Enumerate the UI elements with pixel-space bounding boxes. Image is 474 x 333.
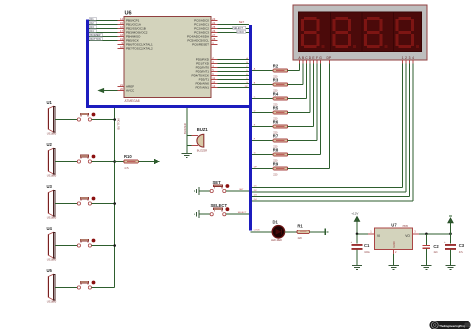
svg-text:C1: C1 [364,243,370,248]
ground below buzzer [182,153,192,157]
wire U7 GND pin to ground [393,254,395,265]
wire net E from PD4 to bus [218,74,250,76]
svg-text:10: 10 [120,45,123,49]
svg-text:D1: D1 [273,220,279,225]
U6 left pins PB0-PB7 with pin numbers [118,17,153,51]
svg-text:11: 11 [212,76,215,80]
svg-text:R1: R1 [297,223,303,228]
svg-text:US1880: US1880 [47,300,57,304]
bus right vertical segment [249,25,252,230]
svg-text:SELECT: SELECT [238,212,247,214]
wire ground to SELECT button [199,213,210,215]
resistor R5 [273,105,288,120]
svg-text:C3: C3 [459,243,465,248]
resistor R9 [273,161,288,176]
svg-text:18: 18 [120,33,123,37]
svg-text:DP: DP [254,167,258,169]
wire C1 to ground [356,250,358,266]
svg-text:1: 1 [402,56,404,60]
wire net D2 digit select from bus to display pin 2 [252,60,406,192]
power terminal arrow above C3 [448,216,454,234]
svg-text:R4: R4 [273,91,279,96]
wire net BUZZER from bus to PB4 [89,33,118,37]
wire net A from PD0 to bus [218,57,250,60]
ground below C1 [352,266,362,270]
wire ground to SET button [199,190,210,192]
svg-text:SELECT: SELECT [233,27,243,30]
display digit 1 segments [301,17,325,48]
transistor U5 hall sensor US1880 [47,268,57,303]
wire bus to resistor R9 [252,167,273,169]
wire C3 to ground [450,250,452,266]
wire U3 to push button 3 [55,203,77,205]
svg-text:U6: U6 [125,10,132,16]
wire resistor R9 to display segment DP [288,60,330,169]
svg-text:PC6/RESET: PC6/RESET [192,43,209,47]
svg-text:DP: DP [327,56,332,60]
svg-text:28: 28 [212,37,215,41]
wire resistor R3 to display segment B [288,60,303,85]
wire net DP from PD7 to bus [218,86,250,88]
svg-text:DP: DP [245,86,249,88]
capacitor C3 electrolytic [444,241,465,254]
wire bus to resistor R8 [252,153,273,155]
resistor R4 [273,91,288,106]
wire net BUTTON from bus to PB5 [89,37,118,41]
wire net D3 digit select from bus to display pin 3 [252,60,410,197]
push button switch 5 [77,281,95,290]
svg-text:C2: C2 [433,244,439,249]
bus horizontal segment [86,105,252,108]
svg-text:R9: R9 [273,161,279,166]
svg-text:100u: 100u [364,251,370,254]
svg-text:23: 23 [212,17,215,21]
wire R1 to power terminal [310,231,326,233]
ground below U7 [388,266,398,270]
wire net D1 digit select from bus to display pin 1 [252,60,403,188]
wire resistor R6 to display segment E [288,60,314,127]
wire push button 1 to BUTTON net [92,118,116,121]
svg-text:BUZ1: BUZ1 [197,127,209,132]
svg-text:SET: SET [213,180,222,185]
push button switch 3 [77,197,95,205]
display inner window [299,12,422,52]
wire bus to resistor R3 [252,83,273,85]
wire U1 to push button 1 [55,119,77,121]
svg-text:19: 19 [120,37,123,41]
buzzer BUZ1 [191,127,208,153]
wire push button 2 to BUTTON net [92,160,116,163]
svg-text:20: 20 [120,87,123,91]
wire net C from PD2 to bus [218,66,250,68]
svg-text:US1880: US1880 [47,174,57,178]
svg-text:U1: U1 [47,100,53,105]
svg-text:21: 21 [120,83,123,87]
wire net D4 from bus to PB3 [89,29,118,33]
wire U2 to push button 2 [55,161,77,163]
svg-text:17: 17 [120,29,123,33]
svg-text:220: 220 [298,237,303,240]
wire net LOCK from bus to LED D1 [251,230,273,232]
svg-text:12: 12 [212,80,215,84]
power terminal arrow on AVCC [98,88,104,92]
resistor R10 [124,154,139,170]
wire resistor R8 to display segment G [288,60,321,155]
wire net D2 from bus to PB1 [89,21,118,25]
wire U7 output node to C2 C3 [419,233,452,236]
svg-text:R6: R6 [273,119,279,124]
svg-text:27: 27 [212,33,215,37]
display digit 4 segments [396,17,420,48]
transistor U4 hall sensor US1880 [47,226,57,261]
ground below C2 [421,266,431,270]
push button SELECT [210,203,229,216]
wire resistor R5 to display segment D [288,60,310,113]
svg-text:G: G [246,82,248,84]
resistor R8 [273,147,288,162]
wire push button 3 to BUTTON net [92,202,116,205]
svg-text:US1880: US1880 [47,216,57,220]
wire net G from PD6 to bus [218,82,250,84]
svg-text:BUTTON: BUTTON [90,38,100,41]
svg-text:U4: U4 [47,226,53,231]
ground left of SET button [195,187,199,195]
U6 pin 20 AVCC [118,87,136,93]
svg-text:U3: U3 [47,184,53,189]
wire net SET from button to bus [226,189,249,191]
svg-text:4.7k: 4.7k [124,167,129,170]
ground left of SELECT button [195,210,199,218]
svg-text:BUZZER: BUZZER [197,148,208,152]
svg-text:7805: 7805 [402,225,408,228]
svg-text:2: 2 [405,56,407,60]
wire bus to resistor R5 [252,111,273,113]
svg-text:13: 13 [212,84,215,88]
capacitor C1 electrolytic [351,241,371,254]
wire net B from PD1 to bus [218,62,250,64]
svg-text:ATMEGA8: ATMEGA8 [125,99,140,103]
svg-text:G: G [254,153,256,155]
wire resistor R2 to display segment A [288,60,300,71]
svg-text:VO: VO [405,234,410,238]
power terminal bar right of R1 [325,229,328,236]
wire net SELECT from PC2 to bus [218,26,250,30]
resistor R1 [297,223,310,240]
svg-text:GND: GND [392,241,396,247]
svg-text:R7: R7 [273,133,279,138]
wire net SET from PC1 to bus [218,20,250,24]
bus left vertical segment [86,20,89,109]
wire U4 to push button 4 [55,245,77,247]
svg-text:R8: R8 [273,147,279,152]
svg-text:220: 220 [273,174,278,177]
wire U5 to push button 5 [55,287,77,289]
wire +12V to U7 input node [356,221,369,235]
svg-text:U2: U2 [47,142,53,147]
watermark logo [430,321,471,329]
svg-text:+12V: +12V [351,211,358,215]
svg-text:VI: VI [377,234,380,238]
transistor U1 hall sensor US1880 [47,100,57,135]
svg-text:R10: R10 [124,154,132,159]
svg-text:LOCK: LOCK [254,230,260,232]
svg-text:22n: 22n [434,251,439,254]
svg-text:SET: SET [239,189,244,191]
svg-text:R5: R5 [273,105,279,110]
svg-text:G: G [319,56,322,60]
transistor U2 hall sensor US1880 [47,142,57,177]
svg-text:26: 26 [212,29,215,33]
svg-text:4: 4 [412,56,414,60]
wire node to capacitor C1 [356,234,358,244]
wire BUTTON net to resistor R10 [115,161,124,163]
svg-text:U7: U7 [391,223,397,228]
wire net D from PD3 to bus [218,70,250,72]
svg-text:14: 14 [120,17,123,21]
power terminal arrow right of R10 [154,159,159,163]
svg-text:LED-RED: LED-RED [271,239,282,242]
wire bus to resistor R6 [252,125,273,127]
transistor U3 hall sensor US1880 [47,184,57,219]
wire net BUTTON vertical [115,108,121,288]
voltage regulator U7 7805 [368,223,419,255]
wire net F from PD5 to bus [218,78,250,80]
wire net D4 digit select from bus to display pin 4 [252,60,413,201]
display digit 3 segments [364,17,388,48]
push button switch 2 [77,155,95,163]
microcontroller U6 ATMEGA8 body [124,10,211,102]
svg-text:R2: R2 [273,63,279,68]
svg-text:BUZZER: BUZZER [90,34,100,37]
svg-text:SET: SET [239,20,245,24]
svg-text:U5: U5 [47,268,53,273]
svg-text:15: 15 [120,21,123,25]
resistor R6 [273,119,288,134]
wire bus to resistor R4 [252,97,273,99]
capacitor C2 [423,244,440,254]
svg-text:PB7/TOSC2/XTAL2: PB7/TOSC2/XTAL2 [126,47,153,51]
svg-text:AVCC: AVCC [126,89,135,93]
svg-text:16: 16 [120,25,123,29]
svg-text:BUZZER: BUZZER [183,123,187,134]
wire net SELECT from button to bus [226,212,249,214]
wire bus to resistor R7 [252,139,273,141]
wire node to capacitor C2 [425,234,427,246]
resistor R2 [273,63,288,78]
wire resistor R4 to display segment C [288,60,307,99]
wire net D3 from bus to PB2 [89,25,118,29]
svg-text:BUTTON: BUTTON [117,118,121,129]
svg-text:3: 3 [409,56,411,60]
svg-text:US1880: US1880 [47,258,57,262]
display digit 2 segments [333,17,357,48]
wire R10 to power terminal [138,161,153,163]
resistor R7 [273,133,288,148]
U6 right pins PD0-PD7 with pin numbers [192,56,218,90]
svg-text:24: 24 [212,21,215,25]
svg-text:47u: 47u [459,251,464,254]
U6 pin 21 AREF [118,83,135,89]
wire push button 5 to BUTTON net [92,287,115,289]
power terminal +12V [351,211,360,221]
wire node to capacitor C3 [450,234,452,244]
display segment labels ABCDEFG DP [298,56,331,60]
wire buzzer to ground [186,145,188,153]
push button switch 4 [77,239,95,247]
svg-text:F: F [316,56,318,60]
svg-text:25: 25 [212,25,215,29]
wire LED D1 to resistor R1 [285,231,297,233]
display digit labels 1234 [402,56,415,60]
wire net BUZZER from bus to buzzer [183,108,192,145]
wire resistor R7 to display segment F [288,60,317,141]
ground below C3 [445,266,455,270]
wire bus to resistor R2 [252,68,273,71]
svg-text:SELECT: SELECT [211,203,228,208]
wire push button 4 to BUTTON net [92,244,116,247]
7-segment display frame [293,5,427,60]
svg-text:LOCK: LOCK [237,31,244,34]
LED D1 [271,220,285,243]
wire AVCC to power terminal [104,90,118,92]
push button switch 1 [77,113,95,122]
svg-text:US1880: US1880 [47,132,57,136]
push button SET [210,180,229,193]
resistor R3 [273,77,288,92]
wire C2 to ground [425,248,427,265]
U6 right pins PC0-PC6 with pin numbers [187,17,218,47]
wire net D1 from bus to PB0 [89,17,118,21]
svg-text:R3: R3 [273,77,279,82]
svg-text:PD7/AIN1: PD7/AIN1 [195,86,209,90]
wire net LOCK from PC3 to bus [218,30,250,34]
